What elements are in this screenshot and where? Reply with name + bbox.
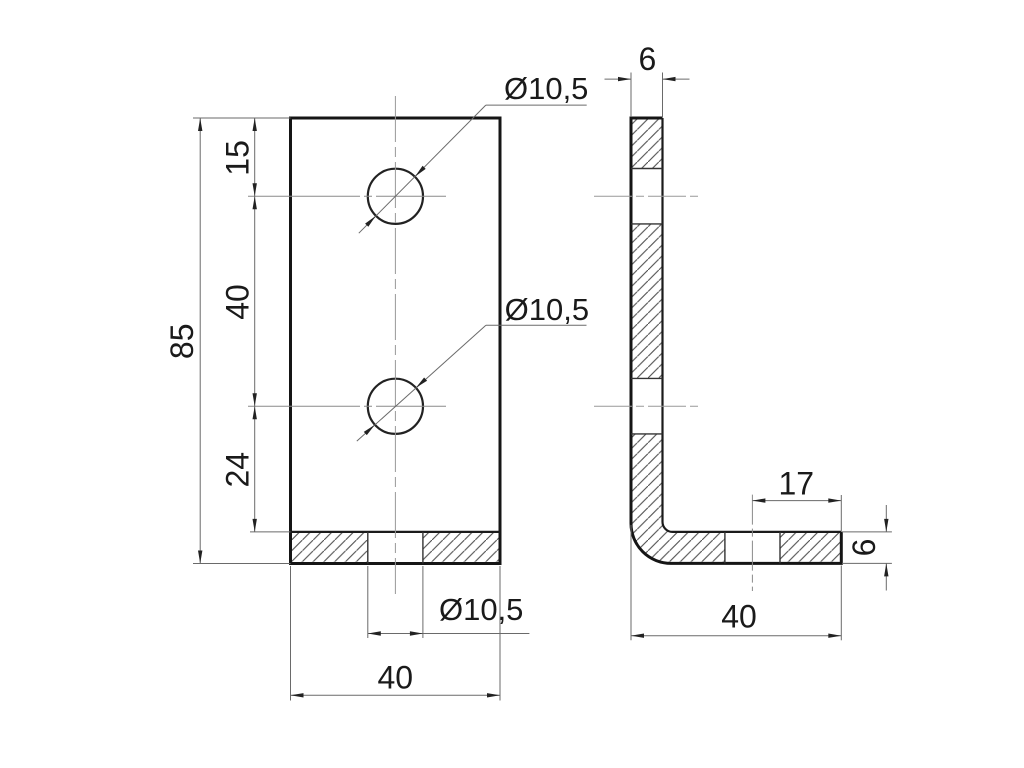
extension line top edge	[193, 117, 291, 119]
dimension 85 line	[198, 118, 202, 564]
side view hole H2 centerline	[594, 405, 700, 407]
svg-text:85: 85	[164, 324, 200, 360]
front view hatched strip right	[423, 532, 500, 564]
svg-text:40: 40	[721, 599, 757, 635]
extension lines thickness 6 top	[631, 73, 663, 118]
extension line bend edge	[250, 531, 291, 533]
dimension chain 15/40/24 line	[253, 118, 257, 532]
side view hatch leg right	[780, 532, 841, 564]
svg-text:Ø10,5: Ø10,5	[504, 71, 588, 106]
side view hole H2 boundary lines	[631, 378, 663, 434]
extension lines strip hole	[368, 566, 423, 638]
dimension 17 line	[752, 498, 841, 502]
svg-text:Ø10,5: Ø10,5	[439, 592, 523, 627]
side view leg hole centerline	[751, 495, 753, 591]
dimension 40 side line	[631, 634, 841, 638]
dimension strip hole line with leader	[368, 631, 530, 635]
leader hole H1 diameter	[359, 105, 587, 233]
dimension 40 front line	[291, 693, 501, 697]
hole H1 circle	[368, 169, 423, 224]
side view hole H1 boundary lines	[631, 169, 663, 224]
svg-text:6: 6	[639, 41, 657, 77]
side view hole H1 centerline	[594, 195, 700, 197]
svg-text:6: 6	[846, 539, 882, 557]
side view hatch corner L	[631, 434, 725, 564]
svg-text:15: 15	[219, 140, 255, 176]
svg-text:17: 17	[779, 466, 815, 502]
svg-text:Ø10,5: Ø10,5	[505, 292, 589, 327]
hole H1 horizontal centerline / extension	[248, 195, 450, 197]
dimension 6 right line	[884, 505, 888, 591]
front view bend edge (strip top)	[291, 531, 501, 533]
dimension 6 top line	[605, 77, 690, 81]
extension line 17 right	[840, 495, 842, 532]
extension line bottom edge	[193, 563, 291, 565]
extension lines width 40 side	[631, 525, 841, 640]
extension lines width 40 front	[291, 566, 501, 701]
front view hatched strip left	[291, 532, 368, 564]
front view strip hole left edge	[367, 532, 369, 564]
side view outer profile	[631, 118, 841, 563]
side view leg hole boundary lines	[725, 532, 780, 564]
front view vertical centerline	[394, 96, 396, 594]
side view inner profile	[663, 118, 842, 532]
hole H2 circle	[368, 379, 423, 434]
side view hatch middle	[631, 224, 663, 379]
svg-text:40: 40	[219, 284, 255, 320]
front view strip hole right edge	[422, 532, 424, 564]
hole H2 horizontal centerline / extension	[248, 405, 450, 407]
svg-text:24: 24	[219, 452, 255, 488]
leader hole H2 diameter	[357, 325, 587, 441]
svg-text:40: 40	[378, 659, 414, 695]
extension lines thickness 6 right	[842, 532, 892, 564]
front view plate outline	[291, 118, 501, 564]
side view hatch top	[631, 118, 663, 169]
